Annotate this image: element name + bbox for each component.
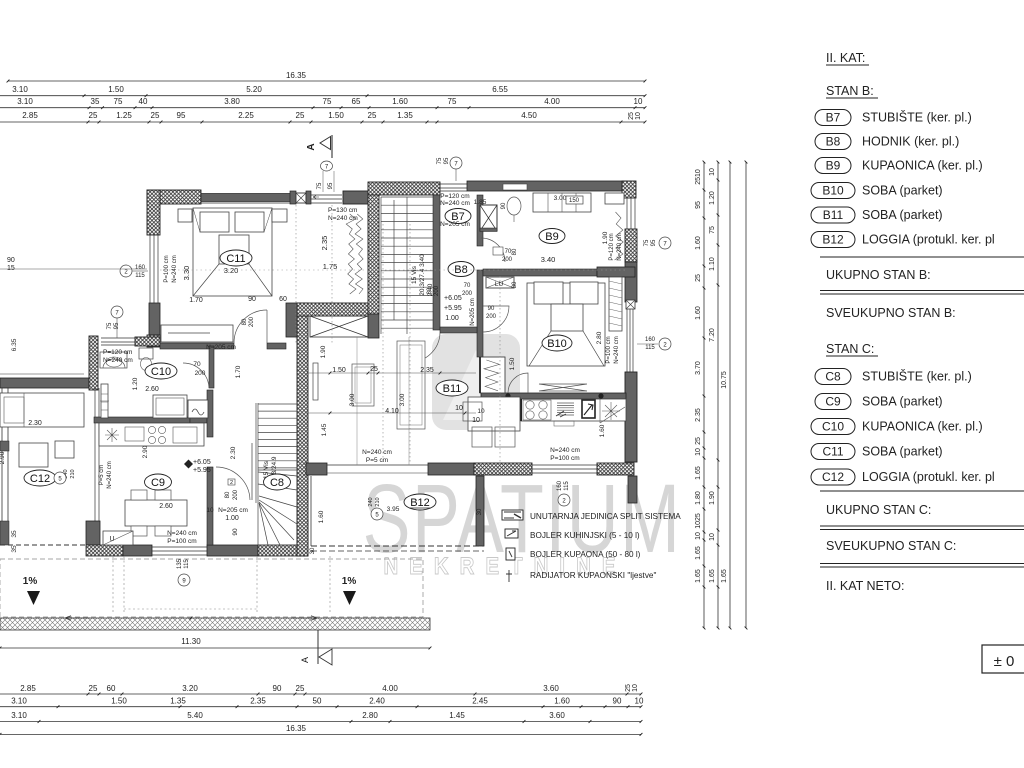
wall: C8 right exterior hatch bbox=[297, 303, 308, 556]
svg-text:P=5 cm: P=5 cm bbox=[99, 465, 105, 486]
right dim chain 4 bbox=[745, 162, 747, 628]
wall: C8 SE corner bbox=[297, 520, 308, 556]
svg-text:10: 10 bbox=[695, 448, 702, 456]
door B8 to B10 arc bbox=[483, 306, 509, 332]
svg-text:75: 75 bbox=[114, 97, 123, 106]
svg-text:1.35: 1.35 bbox=[170, 697, 186, 706]
pillow C11 a bbox=[200, 212, 229, 232]
svg-text:+5.95: +5.95 bbox=[193, 467, 211, 474]
svg-text:SVEUKUPNO STAN C:: SVEUKUPNO STAN C: bbox=[826, 539, 956, 553]
svg-text:10: 10 bbox=[635, 697, 644, 706]
svg-text:2.40: 2.40 bbox=[369, 697, 385, 706]
svg-text:SOBA (parket): SOBA (parket) bbox=[862, 395, 943, 409]
section marker A bottom bbox=[317, 630, 319, 664]
bottom dimension row B bbox=[0, 706, 641, 708]
wall: C10 left hatch pier bbox=[89, 336, 98, 390]
legend icon boiler kitchen bbox=[505, 529, 518, 538]
terrace hatched strip bbox=[0, 618, 430, 630]
svg-text:P=100 cm: P=100 cm bbox=[164, 255, 170, 282]
svg-text:P=5 cm: P=5 cm bbox=[366, 457, 388, 464]
panel row C9 bbox=[815, 394, 851, 410]
radiator C10 bbox=[101, 384, 108, 418]
svg-text:UKUPNO STAN B:: UKUPNO STAN B: bbox=[826, 268, 931, 282]
svg-text:4.00: 4.00 bbox=[382, 684, 398, 693]
svg-text:90: 90 bbox=[248, 296, 256, 303]
svg-text:10: 10 bbox=[472, 417, 480, 424]
svg-text:3.60: 3.60 bbox=[549, 711, 565, 720]
wall: right exterior B9 bbox=[626, 198, 628, 229]
svg-text:75: 75 bbox=[709, 226, 716, 234]
svg-text:2.90: 2.90 bbox=[142, 445, 149, 458]
window B7 top bbox=[440, 183, 467, 185]
svg-text:3.70: 3.70 bbox=[695, 361, 702, 375]
svg-text:1.65: 1.65 bbox=[695, 569, 702, 583]
svg-text:1.50: 1.50 bbox=[509, 357, 516, 370]
door C10 right arc bbox=[183, 363, 209, 388]
staircase C8 treads bbox=[256, 403, 297, 503]
svg-text:P=100 cm: P=100 cm bbox=[167, 538, 196, 545]
svg-text:6.35: 6.35 bbox=[11, 338, 18, 351]
svg-text:25: 25 bbox=[89, 111, 98, 120]
closet LU B10 bbox=[486, 277, 514, 288]
svg-text:C10: C10 bbox=[822, 420, 844, 434]
wall black bar SE of C11 bbox=[286, 303, 297, 337]
svg-text:1.20: 1.20 bbox=[709, 191, 716, 205]
room label C9 bbox=[145, 474, 172, 490]
top dimension row 3 bbox=[0, 107, 645, 109]
svg-text:115: 115 bbox=[564, 481, 570, 491]
window C9 bottom bbox=[152, 546, 207, 548]
svg-text:1.00: 1.00 bbox=[445, 315, 459, 322]
chair B11 a bbox=[463, 402, 482, 421]
right dim chain 2 bbox=[717, 162, 719, 628]
svg-text:STUBIŠTE (ker. pl.): STUBIŠTE (ker. pl.) bbox=[862, 369, 972, 384]
svg-text:1.60: 1.60 bbox=[392, 97, 408, 106]
svg-text:3.10: 3.10 bbox=[11, 697, 27, 706]
svg-text:3.10: 3.10 bbox=[12, 85, 28, 94]
sink B11 bbox=[557, 403, 574, 415]
svg-text:B7: B7 bbox=[826, 111, 841, 125]
svg-text:25: 25 bbox=[368, 111, 377, 120]
shelf B11 left bbox=[313, 363, 318, 400]
svg-text:60: 60 bbox=[107, 684, 116, 693]
svg-text:+6.05: +6.05 bbox=[444, 295, 462, 302]
svg-text:3.10: 3.10 bbox=[17, 97, 33, 106]
svg-text:4.50: 4.50 bbox=[521, 111, 537, 120]
washer C10 bbox=[188, 400, 208, 418]
window shutter box C11 top bbox=[201, 194, 295, 202]
svg-text:C8: C8 bbox=[270, 477, 284, 489]
svg-text:2.35: 2.35 bbox=[695, 408, 702, 422]
svg-text:N=205 cm: N=205 cm bbox=[440, 221, 470, 228]
svg-text:25: 25 bbox=[370, 366, 378, 373]
svg-text:1.60: 1.60 bbox=[695, 236, 702, 250]
svg-text:3.00: 3.00 bbox=[349, 393, 356, 406]
pillow B10 b bbox=[570, 282, 598, 304]
panel row B12 bbox=[811, 232, 855, 248]
svg-text:10: 10 bbox=[206, 507, 214, 514]
svg-text:B10: B10 bbox=[547, 338, 567, 350]
wall band B9 top bbox=[467, 181, 626, 191]
svg-text:25: 25 bbox=[296, 684, 305, 693]
window B10 right bbox=[626, 309, 628, 372]
room label B11 bbox=[436, 380, 468, 396]
svg-text:N=240 cm: N=240 cm bbox=[103, 357, 133, 364]
svg-text:1025: 1025 bbox=[695, 513, 702, 529]
svg-text:N=240 cm: N=240 cm bbox=[107, 461, 113, 489]
svg-text:20.3/27.4 3.40: 20.3/27.4 3.40 bbox=[419, 254, 426, 296]
svg-text:A: A bbox=[306, 143, 317, 150]
svg-text:2510: 2510 bbox=[695, 169, 702, 185]
section marker A top bbox=[331, 135, 333, 158]
panel row B8 bbox=[815, 134, 851, 150]
svg-text:KUPAONICA (ker. pl.): KUPAONICA (ker. pl.) bbox=[862, 420, 983, 434]
panel row B7 bbox=[815, 110, 851, 126]
svg-text:2.85: 2.85 bbox=[22, 111, 38, 120]
svg-text:SOBA (parket): SOBA (parket) bbox=[862, 184, 943, 198]
svg-text:2.45: 2.45 bbox=[472, 697, 488, 706]
svg-text:1.25: 1.25 bbox=[116, 111, 132, 120]
dim line B11 mid bbox=[308, 412, 476, 414]
svg-text:240: 240 bbox=[368, 497, 374, 506]
pier X right wall bbox=[626, 300, 635, 309]
svg-text:160: 160 bbox=[645, 337, 656, 343]
svg-text:30: 30 bbox=[477, 508, 483, 515]
svg-text:200: 200 bbox=[195, 370, 206, 377]
svg-text:II. KAT NETO:: II. KAT NETO: bbox=[826, 579, 905, 593]
panel rule bbox=[820, 256, 1024, 258]
table C9 bbox=[125, 500, 187, 526]
strip arrows bbox=[65, 616, 90, 620]
svg-text:1.50: 1.50 bbox=[111, 697, 127, 706]
chair B9 bbox=[507, 197, 521, 215]
svg-text:135: 135 bbox=[177, 558, 183, 569]
bottom dimension row A bbox=[0, 693, 641, 695]
C9 star symbol bbox=[105, 428, 119, 442]
svg-text:B8: B8 bbox=[826, 135, 841, 149]
svg-text:80: 80 bbox=[225, 491, 231, 498]
svg-text:7.20: 7.20 bbox=[709, 328, 716, 342]
terrace dashed canopy bbox=[0, 559, 423, 617]
svg-text:P=120 cm: P=120 cm bbox=[440, 193, 469, 200]
room label C10 bbox=[145, 363, 177, 379]
stove B11 bbox=[523, 400, 551, 420]
panel row C8 bbox=[815, 369, 851, 385]
svg-text:1.70: 1.70 bbox=[189, 297, 203, 304]
wall: C11 top exterior bbox=[147, 190, 201, 204]
bottom dimension row D bbox=[0, 733, 641, 735]
wall: B7 top exterior bbox=[368, 182, 440, 195]
svg-text:90: 90 bbox=[232, 528, 239, 536]
door B8 to B11 arc bbox=[410, 333, 440, 362]
wardrobe B10 bbox=[609, 277, 622, 331]
wall: C10 bottom interior bbox=[94, 417, 190, 423]
svg-text:70: 70 bbox=[505, 249, 512, 255]
svg-text:75: 75 bbox=[437, 157, 443, 164]
svg-text:200: 200 bbox=[233, 489, 239, 500]
svg-text:35: 35 bbox=[11, 545, 18, 553]
svg-text:N=240 cm: N=240 cm bbox=[167, 530, 197, 537]
svg-text:70: 70 bbox=[464, 283, 471, 289]
svg-text:95: 95 bbox=[444, 157, 450, 164]
wall: B12 right upper bbox=[628, 476, 637, 503]
kitchen counter B11 bbox=[521, 399, 626, 421]
svg-text:HODNIK (ker. pl.): HODNIK (ker. pl.) bbox=[862, 135, 959, 149]
svg-text:10: 10 bbox=[709, 533, 716, 541]
window C11 left bbox=[149, 235, 151, 303]
chair B11 c bbox=[495, 427, 515, 447]
svg-text:95: 95 bbox=[651, 239, 657, 246]
svg-text:75: 75 bbox=[644, 239, 650, 246]
bottom dimension row C bbox=[0, 721, 641, 723]
svg-text:C11: C11 bbox=[226, 253, 245, 265]
svg-text:C9: C9 bbox=[151, 477, 165, 489]
svg-text:80: 80 bbox=[512, 248, 518, 255]
svg-text:90: 90 bbox=[488, 306, 495, 312]
dotted lines C11 bbox=[295, 205, 297, 345]
svg-text:STAN B:: STAN B: bbox=[826, 84, 874, 98]
wall: B8 bottom bbox=[440, 327, 477, 333]
svg-text:5.20: 5.20 bbox=[246, 85, 262, 94]
svg-text:C8: C8 bbox=[825, 370, 841, 384]
nightstand C11 right bbox=[272, 209, 287, 222]
svg-text:B11: B11 bbox=[443, 383, 462, 395]
svg-text:1.10: 1.10 bbox=[709, 257, 716, 271]
svg-text:1%: 1% bbox=[342, 576, 357, 587]
svg-text:16.35: 16.35 bbox=[286, 71, 307, 80]
wall: C11 left lower hatch bbox=[147, 335, 160, 347]
svg-text:1.90: 1.90 bbox=[320, 345, 327, 358]
bed C11 bbox=[193, 208, 272, 296]
svg-text:N=205 cm: N=205 cm bbox=[218, 507, 248, 514]
svg-text:65: 65 bbox=[352, 97, 361, 106]
svg-text:SOBA (parket): SOBA (parket) bbox=[862, 445, 943, 459]
wall: C12 top band bbox=[0, 378, 89, 388]
panel double rule bbox=[820, 563, 1024, 565]
svg-text:N=240 cm: N=240 cm bbox=[614, 336, 620, 364]
bathtub C10 bbox=[153, 395, 187, 418]
svg-text:10.75: 10.75 bbox=[721, 371, 728, 389]
svg-text:75: 75 bbox=[323, 97, 332, 106]
dashed verticals bbox=[112, 556, 114, 612]
svg-text:115: 115 bbox=[135, 273, 145, 279]
svg-text:1.85: 1.85 bbox=[474, 199, 487, 206]
svg-text:B12: B12 bbox=[410, 497, 430, 509]
svg-text:2.30: 2.30 bbox=[28, 420, 42, 427]
wall: C9/C8 divider bbox=[207, 390, 213, 437]
panel rule bbox=[820, 490, 1024, 492]
svg-text:35: 35 bbox=[11, 530, 18, 538]
svg-text:90: 90 bbox=[7, 257, 15, 264]
svg-text:210: 210 bbox=[70, 469, 76, 478]
svg-text:1.65: 1.65 bbox=[695, 546, 702, 560]
pillow C11 b bbox=[235, 212, 264, 232]
wardrobe B10 zigzag bbox=[480, 357, 505, 393]
svg-text:B9: B9 bbox=[545, 231, 558, 243]
marker 2 C11 window bbox=[120, 265, 132, 277]
svg-text:1.45: 1.45 bbox=[449, 711, 465, 720]
svg-text:P=130 cm: P=130 cm bbox=[328, 207, 357, 214]
svg-text:BOJLER KUPAONA (50 - 80 l): BOJLER KUPAONA (50 - 80 l) bbox=[530, 550, 641, 559]
svg-text:160: 160 bbox=[135, 265, 146, 271]
svg-text:1.50: 1.50 bbox=[332, 367, 346, 374]
svg-text:40: 40 bbox=[139, 97, 148, 106]
svg-text:2.30: 2.30 bbox=[230, 446, 237, 459]
svg-text:2.80: 2.80 bbox=[362, 711, 378, 720]
svg-text:3.40: 3.40 bbox=[541, 255, 556, 264]
door C9 arc bbox=[216, 467, 250, 500]
svg-text:90: 90 bbox=[273, 684, 282, 693]
panel row C10 bbox=[811, 419, 855, 435]
svg-text:P=100 cm: P=100 cm bbox=[550, 455, 579, 462]
room label B9 bbox=[539, 229, 565, 244]
radiator B10 bbox=[539, 384, 587, 391]
room label C11 bbox=[220, 250, 252, 266]
stove C9 bbox=[148, 426, 165, 443]
svg-text:C10: C10 bbox=[151, 366, 171, 378]
legend icon split unit bbox=[502, 510, 523, 520]
svg-text:1.65: 1.65 bbox=[695, 466, 702, 480]
staircase B7 arrow bbox=[393, 200, 395, 320]
window C11 top bbox=[311, 194, 342, 196]
window B11 bottom bbox=[532, 464, 597, 466]
circled 7 top a bbox=[321, 161, 333, 171]
table B11 bbox=[468, 397, 520, 431]
svg-text:3.20: 3.20 bbox=[182, 684, 198, 693]
svg-text:LU: LU bbox=[495, 281, 504, 288]
boiler U box C9 bbox=[103, 531, 133, 545]
wall: NE corner bbox=[622, 181, 636, 198]
blanket B10 bbox=[551, 304, 583, 331]
svg-text:1.60: 1.60 bbox=[695, 306, 702, 320]
svg-text:75: 75 bbox=[107, 322, 113, 329]
svg-text:60: 60 bbox=[279, 296, 287, 303]
svg-text:1.65: 1.65 bbox=[709, 569, 716, 583]
svg-text:200: 200 bbox=[502, 257, 513, 263]
svg-text:50: 50 bbox=[313, 697, 322, 706]
svg-text:STAN C:: STAN C: bbox=[826, 342, 874, 356]
dotted lines B11 bbox=[382, 224, 384, 463]
svg-text:2.25: 2.25 bbox=[238, 111, 254, 120]
svg-text:1.00: 1.00 bbox=[225, 515, 239, 522]
svg-text:25: 25 bbox=[296, 111, 305, 120]
fridge B11 bbox=[582, 400, 595, 418]
toilet C10 bbox=[139, 348, 153, 359]
svg-text:N=240 cm: N=240 cm bbox=[617, 233, 623, 261]
wall: B11/B10 bottom exterior bbox=[306, 463, 327, 475]
svg-text:10: 10 bbox=[455, 405, 463, 412]
sofa C12 bbox=[0, 393, 84, 427]
svg-text:N=240 cm: N=240 cm bbox=[172, 255, 178, 283]
desk B9 bbox=[533, 193, 591, 212]
svg-text:2.85: 2.85 bbox=[20, 684, 36, 693]
svg-text:3.00: 3.00 bbox=[399, 393, 406, 406]
svg-text:A: A bbox=[300, 657, 310, 663]
panel row B11 bbox=[811, 207, 855, 223]
svg-text:N=205 cm: N=205 cm bbox=[206, 344, 236, 351]
B12 bottom dashed bbox=[311, 545, 484, 547]
svg-text:25: 25 bbox=[695, 274, 702, 282]
svg-text:+5.95: +5.95 bbox=[444, 305, 462, 312]
svg-text:25: 25 bbox=[151, 111, 160, 120]
svg-text:U: U bbox=[109, 536, 114, 543]
svg-text:10: 10 bbox=[634, 97, 643, 106]
watermark logo bbox=[432, 334, 520, 430]
under-counter boxes bbox=[554, 421, 574, 426]
svg-text:B12: B12 bbox=[822, 233, 844, 247]
cabinet B11 a bbox=[352, 364, 374, 406]
wall: B7/B8 divider bbox=[433, 195, 440, 330]
svg-text:16.35: 16.35 bbox=[286, 724, 307, 733]
svg-text:210: 210 bbox=[375, 497, 381, 506]
svg-text:+6.05: +6.05 bbox=[193, 459, 211, 466]
window C10 top bbox=[101, 337, 135, 339]
svg-text:KUPAONICA (ker. pl.): KUPAONICA (ker. pl.) bbox=[862, 159, 983, 173]
svg-text:B9: B9 bbox=[826, 159, 841, 173]
dresser C11 bbox=[161, 325, 233, 342]
svg-text:3.60: 3.60 bbox=[543, 684, 559, 693]
svg-text:70: 70 bbox=[193, 361, 201, 368]
svg-text:1.60: 1.60 bbox=[554, 697, 570, 706]
wall: C10 top hatch bbox=[135, 337, 160, 346]
svg-text:10: 10 bbox=[477, 408, 485, 415]
room label B10 bbox=[542, 335, 572, 351]
svg-text:RADIJATOR KUPAONSKI "ljestve": RADIJATOR KUPAONSKI "ljestve" bbox=[530, 571, 656, 580]
svg-text:1.50: 1.50 bbox=[328, 111, 344, 120]
wall: C11 left exterior bbox=[147, 190, 160, 235]
svg-text:75: 75 bbox=[448, 97, 457, 106]
svg-text:10: 10 bbox=[632, 684, 639, 692]
shelf B9 right bbox=[605, 193, 624, 204]
bed B10 bbox=[527, 283, 605, 366]
wardrobe B9 zigzag bbox=[615, 212, 624, 260]
cabinet B11 b bbox=[397, 341, 425, 429]
svg-text:35: 35 bbox=[91, 97, 100, 106]
svg-text:II. KAT:: II. KAT: bbox=[826, 51, 865, 65]
svg-text:3.20: 3.20 bbox=[224, 266, 239, 275]
svg-text:10: 10 bbox=[635, 112, 642, 120]
wall B10/B11 divider bbox=[481, 393, 626, 399]
svg-text:1%: 1% bbox=[23, 576, 38, 587]
wall gray block right of void bbox=[368, 314, 379, 338]
svg-text:1.90: 1.90 bbox=[709, 491, 716, 505]
chair B11 b bbox=[472, 427, 492, 447]
svg-text:15 Vis: 15 Vis bbox=[411, 265, 418, 284]
svg-text:200: 200 bbox=[434, 285, 440, 296]
wall pier top bbox=[290, 191, 296, 204]
svg-text:1.35: 1.35 bbox=[397, 111, 413, 120]
wall: C12 left edge bbox=[1, 388, 3, 545]
svg-text:80: 80 bbox=[242, 318, 248, 325]
svg-text:3.00: 3.00 bbox=[554, 195, 567, 202]
svg-text:75: 75 bbox=[317, 182, 323, 189]
svg-text:B10: B10 bbox=[822, 184, 844, 198]
svg-text:1.60: 1.60 bbox=[318, 510, 325, 523]
svg-text:1.80: 1.80 bbox=[695, 491, 702, 505]
dim 11.30 bbox=[0, 647, 430, 649]
svg-text:N=240 cm: N=240 cm bbox=[550, 447, 580, 454]
svg-text:B11: B11 bbox=[823, 208, 844, 222]
svg-text:N=205 cm: N=205 cm bbox=[470, 298, 476, 326]
svg-text:3.10: 3.10 bbox=[11, 711, 27, 720]
svg-text:1.50: 1.50 bbox=[108, 85, 124, 94]
panel row B9 bbox=[815, 158, 851, 174]
wall: C12/C9 divider bbox=[94, 388, 96, 521]
svg-text:B8: B8 bbox=[454, 264, 467, 276]
room label C12 bbox=[24, 470, 56, 486]
legend icon boiler bath bbox=[506, 548, 515, 560]
svg-text:1.65: 1.65 bbox=[721, 569, 728, 583]
